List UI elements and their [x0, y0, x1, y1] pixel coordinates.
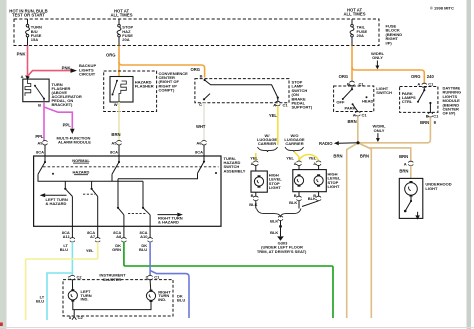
arrow to multi-function alarm module [70, 129, 75, 134]
dashed link [128, 212, 146, 214]
bottom pin A7 [97, 226, 99, 238]
brace left option [258, 147, 278, 152]
wire YEL [26, 242, 98, 320]
svg-text:A: A [313, 161, 316, 166]
svg-text:ORG: ORG [411, 74, 421, 79]
svg-text:COMPT): COMPT) [159, 88, 175, 93]
fuse STOP HAZ 20A [118, 19, 120, 24]
mechanical dashed line [43, 166, 219, 168]
svg-text:BLU: BLU [177, 298, 185, 303]
wire BLK merge diagonal [302, 201, 319, 207]
svg-text:ASSEMBLY: ASSEMBLY [224, 168, 246, 173]
lower pole 1 [64, 181, 66, 188]
svg-text:C1: C1 [433, 114, 439, 119]
svg-text:PPL: PPL [35, 134, 44, 139]
arrow w/drl [376, 61, 378, 67]
svg-text:PNK: PNK [17, 51, 26, 56]
contact dot [215, 172, 217, 174]
fuse block dashed box [14, 19, 379, 46]
svg-text:BRN: BRN [399, 154, 408, 159]
wire PPL branch to alarm module [44, 107, 72, 129]
svg-text:BRN: BRN [348, 119, 357, 124]
wire PNK branch to backup lights [28, 71, 71, 77]
svg-text:IND.: IND. [81, 297, 89, 302]
wire BRN branch to underhood light [358, 143, 411, 161]
svg-text:ALL TIMES: ALL TIMES [110, 13, 132, 18]
svg-text:ONLY: ONLY [374, 128, 385, 133]
pole from A6 [203, 156, 205, 161]
svg-text:& HAZARD: & HAZARD [46, 201, 67, 206]
wire LT BLU branch [47, 273, 72, 320]
svg-text:ALARM MODULE: ALARM MODULE [58, 140, 91, 145]
svg-text:15A: 15A [31, 37, 38, 42]
svg-text:A: A [404, 162, 407, 167]
right page border strip [467, 0, 472, 329]
svg-text:C1: C1 [428, 82, 434, 87]
hazard flasher internals [116, 80, 118, 82]
svg-text:CARRIER: CARRIER [285, 141, 303, 146]
svg-text:BLK: BLK [270, 219, 278, 224]
pin B left CHMSL [255, 192, 257, 196]
hazard contact dot [52, 173, 54, 175]
svg-text:BLU: BLU [60, 247, 68, 252]
lower pole 4 [142, 181, 144, 207]
svg-text:ORG: ORG [106, 53, 116, 58]
arrow w/drl lower [377, 133, 379, 138]
svg-text:RADIO: RADIO [319, 141, 333, 146]
svg-text:W: W [114, 102, 118, 107]
svg-text:FLASHER: FLASHER [135, 84, 154, 89]
wire BRN branch 2 [358, 143, 371, 318]
svg-text:BRN: BRN [399, 169, 408, 174]
svg-text:ORG: ORG [339, 74, 349, 79]
lower pole 2 [91, 181, 93, 188]
wire into switch [118, 145, 120, 156]
bottom pin A10 [149, 226, 151, 238]
red page mark bottom-left [0, 323, 3, 327]
underhood case ground [417, 212, 419, 216]
svg-text:A7: A7 [90, 234, 96, 239]
internal drop [111, 174, 113, 181]
wire YEL right CHMSL [294, 152, 299, 162]
wire into switch [44, 145, 46, 156]
turn flasher internals [25, 79, 31, 96]
internal bus A [38, 174, 143, 181]
svg-text:CTRL: CTRL [402, 99, 413, 104]
svg-text:8CA: 8CA [195, 150, 203, 155]
svg-text:CARRIER: CARRIER [258, 141, 276, 146]
wire BRN from hazard flasher [118, 102, 120, 141]
svg-text:ORG: ORG [190, 67, 200, 72]
instrument cluster dashed box [63, 280, 173, 316]
svg-text:CIRCUIT: CIRCUIT [79, 72, 96, 77]
brace merge to ground [257, 209, 302, 217]
svg-text:A11: A11 [63, 234, 71, 239]
svg-text:C2: C2 [77, 274, 83, 279]
svg-text:LIGHT: LIGHT [425, 186, 438, 191]
lamp 1 [294, 174, 303, 186]
wire DK GRN [124, 242, 333, 318]
cluster internal ground bus [73, 302, 151, 310]
pole from A9 [44, 156, 46, 161]
wire BRN light switch to junction [357, 116, 359, 143]
DRL module dashed box [400, 87, 438, 113]
wire DK BLU branch [150, 271, 189, 319]
stop switch blade [205, 80, 278, 98]
wire YEL from stop switch A [277, 106, 279, 145]
svg-text:A10: A10 [140, 234, 148, 239]
DRL switch internals [423, 88, 425, 90]
svg-text:BRN: BRN [360, 154, 369, 159]
svg-text:C2: C2 [78, 315, 84, 320]
svg-text:C1: C1 [283, 102, 289, 107]
wire ORG from tail fuse [351, 46, 353, 82]
turn hazard switch assembly box [34, 156, 221, 226]
connector below brace [278, 216, 283, 220]
svg-text:C1: C1 [362, 112, 368, 117]
svg-text:OF I/P): OF I/P) [443, 111, 457, 116]
wire BRN DRL to junction [358, 117, 430, 143]
svg-text:HEAD: HEAD [362, 98, 373, 103]
bottom pin A8 [123, 226, 125, 238]
pin C stop switch [203, 98, 205, 100]
wire YEL left CHMSL [255, 153, 257, 161]
underhood switch [410, 197, 412, 201]
bottom pin A11 [71, 226, 73, 238]
svg-text:20A: 20A [122, 37, 129, 42]
svg-text:PPL: PPL [63, 122, 72, 127]
svg-text:C1: C1 [154, 274, 160, 279]
svg-text:BLK: BLK [249, 202, 257, 207]
wire PPL from turn flasher [43, 102, 45, 141]
svg-text:LIGHT: LIGHT [269, 185, 282, 190]
wire into switch [203, 145, 205, 156]
turn flasher box [23, 79, 49, 102]
svg-text:BLU: BLU [139, 247, 147, 252]
internal bus B [118, 173, 198, 179]
wire to radio [339, 142, 358, 144]
svg-text:8CA: 8CA [36, 150, 44, 155]
lamp [254, 175, 263, 187]
svg-text:ONLY: ONLY [372, 55, 383, 60]
svg-text:YEL: YEL [250, 156, 258, 161]
wire PNK from turn fuse [27, 46, 29, 80]
underhood light box [399, 178, 423, 218]
svg-text:GRN: GRN [112, 247, 121, 252]
arrow left turn and hazard [40, 193, 46, 197]
wire LT BLU [71, 242, 73, 276]
svg-text:A: A [21, 74, 24, 79]
arrow to backup lights circuit [71, 68, 78, 73]
svg-text:& HAZARD: & HAZARD [158, 220, 179, 225]
svg-text:NORMAL: NORMAL [72, 158, 90, 163]
svg-text:BRN: BRN [111, 132, 120, 137]
convenience center dashed box [104, 71, 157, 112]
svg-text:20A: 20A [357, 33, 364, 38]
light switch internals [351, 86, 353, 89]
svg-text:B: B [294, 193, 297, 198]
svg-text:A: A [417, 82, 420, 87]
high level stop light (w/ carrier) box [251, 171, 267, 192]
wire DK BLU [149, 242, 151, 276]
svg-text:BLK: BLK [308, 196, 316, 201]
svg-text:OFF: OFF [336, 100, 345, 105]
wire BRN into underhood light [410, 166, 412, 179]
svg-text:BRACKET): BRACKET) [52, 102, 74, 107]
brace right option [285, 147, 304, 152]
svg-text:BLK: BLK [270, 230, 278, 235]
svg-text:YEL: YEL [269, 113, 278, 118]
svg-text:B: B [38, 103, 41, 108]
svg-text:HAZARD: HAZARD [73, 170, 90, 175]
arrow right turn and hazard [158, 214, 178, 216]
fuse TURN B/U 15A [27, 19, 29, 24]
junction node BRN [356, 141, 359, 144]
lamp 2 [314, 174, 323, 186]
wire ORG from stop haz fuse [118, 46, 120, 77]
right turn ind lamp [149, 280, 152, 291]
left turn ind lamp [71, 280, 73, 291]
svg-text:SWITCH: SWITCH [376, 90, 392, 95]
svg-text:BLK: BLK [289, 200, 297, 205]
svg-text:LIGHT: LIGHT [328, 184, 341, 189]
svg-text:A: A [294, 161, 297, 166]
svg-text:YEL: YEL [86, 248, 94, 253]
lower pole 3 [117, 179, 119, 207]
wire WHT from stop switch C [203, 103, 205, 141]
svg-text:WHT: WHT [196, 124, 206, 129]
fuse TAIL 20A [351, 19, 353, 24]
hazard flasher box [110, 77, 133, 103]
svg-text:YEL: YEL [286, 156, 294, 161]
wire YEL jumper arc [299, 155, 319, 161]
svg-text:I/P): I/P) [386, 40, 393, 45]
underhood lamp [405, 183, 418, 196]
svg-text:YEL: YEL [309, 156, 317, 161]
svg-text:TRIM, AT DRIVER'S SEAT): TRIM, AT DRIVER'S SEAT) [257, 249, 307, 254]
pole from A5 [118, 156, 120, 161]
wire BRN branch 1 [347, 143, 358, 318]
svg-text:B: B [200, 74, 203, 79]
light switch dashed box [334, 86, 374, 112]
svg-text:BLU: BLU [36, 299, 44, 304]
junction [279, 225, 282, 228]
high level stop light (w/o carrier) box [293, 170, 327, 192]
ground G303 [277, 236, 284, 240]
stop lamp switch dashed box [195, 79, 289, 103]
svg-text:240: 240 [427, 74, 435, 79]
svg-text:IND.: IND. [158, 297, 166, 302]
svg-text:PNK: PNK [62, 65, 71, 70]
svg-text:SUPPORT): SUPPORT) [292, 105, 313, 110]
svg-text:BRN: BRN [420, 120, 429, 125]
left page border strip [0, 0, 7, 329]
pin A stop switch [277, 98, 279, 102]
svg-text:TEST OR START: TEST OR START [12, 13, 45, 18]
dashed link [83, 193, 95, 195]
svg-text:ALL TIMES: ALL TIMES [343, 12, 365, 17]
svg-text:8CA: 8CA [110, 150, 118, 155]
wire ORG branch to DRL module [352, 67, 424, 83]
svg-text:C: C [199, 102, 202, 107]
svg-text:A8: A8 [116, 234, 122, 239]
wire ORG branch to stop lamp switch [119, 62, 205, 78]
svg-text:B: B [251, 193, 254, 198]
svg-text:BRN: BRN [333, 154, 342, 159]
svg-text:© 1998 MITC: © 1998 MITC [430, 6, 454, 11]
bottom page border line [0, 327, 474, 328]
arrow radio [334, 141, 339, 145]
